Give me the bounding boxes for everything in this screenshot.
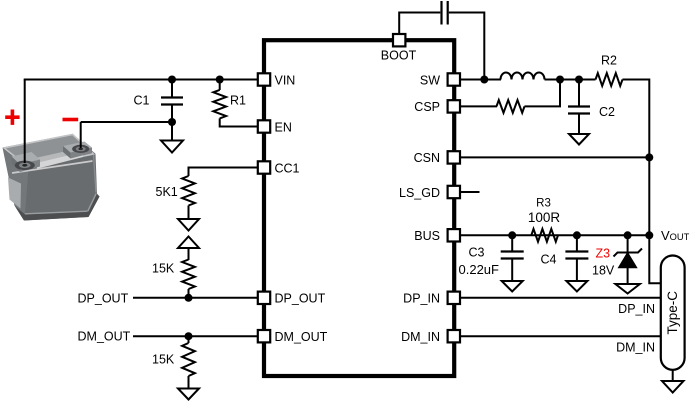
svg-text:R2: R2 — [601, 54, 617, 68]
wire VOUT to Type-C — [649, 235, 661, 283]
resistor R2 — [596, 73, 623, 86]
node CSN / right rail — [645, 153, 653, 161]
node C1 top (VIN rail) — [168, 76, 176, 84]
pin DM_IN — [448, 330, 460, 342]
wire DM_IN to Type-C — [460, 335, 661, 337]
pin BUS — [448, 229, 460, 241]
svg-text:SW: SW — [420, 73, 440, 87]
svg-text:CSN: CSN — [414, 151, 440, 165]
resistor R1 — [213, 90, 226, 119]
resistor 15K (DM_OUT) — [182, 343, 195, 376]
node Z3 / BUS — [624, 231, 632, 239]
capacitor C_BOOT — [442, 1, 448, 25]
svg-text:DP_IN: DP_IN — [618, 302, 655, 316]
wire CC1 to 5K1 — [189, 168, 259, 177]
svg-text:DM_IN: DM_IN — [616, 341, 655, 355]
resistor R_sense (CSP) — [497, 100, 525, 113]
svg-text:DP_OUT: DP_OUT — [275, 292, 326, 306]
svg-text:BOOT: BOOT — [381, 49, 417, 63]
ground under C1 — [161, 141, 183, 153]
ground under C2 — [569, 134, 589, 145]
svg-text:18V: 18V — [592, 264, 615, 278]
wire L1 to R2 — [545, 79, 596, 81]
svg-text:Type-C: Type-C — [665, 291, 680, 335]
node C3 / BUS — [508, 231, 516, 239]
svg-text:DP_IN: DP_IN — [403, 292, 440, 306]
capacitor C2 — [568, 80, 590, 134]
node L1 / CSP riser — [556, 76, 564, 84]
battery minus symbol — [63, 118, 79, 122]
capacitor C4 — [565, 235, 588, 281]
resistor R3 — [531, 229, 558, 242]
svg-text:0.22uF: 0.22uF — [459, 262, 500, 277]
ground under C4 — [566, 281, 587, 292]
wire battery - to C1 bottom — [81, 121, 172, 123]
svg-text:CSP: CSP — [414, 100, 440, 114]
node C1 bottom — [168, 118, 176, 126]
svg-text:DP_OUT: DP_OUT — [78, 291, 129, 305]
svg-text:100R: 100R — [528, 210, 561, 225]
wire DM_OUT to 15K — [188, 336, 190, 343]
ground under C3 — [502, 281, 523, 292]
pin LS_GD — [448, 186, 460, 198]
wire C_BOOT to SW node — [449, 13, 485, 80]
node 15K / DP_OUT — [185, 294, 193, 302]
ground under 5K1 — [178, 219, 199, 231]
pin CC1 — [258, 161, 270, 173]
ground (flipped) above 15K — [178, 237, 199, 249]
pin DP_OUT — [258, 292, 270, 304]
wire SW to L1 — [460, 79, 501, 81]
svg-text:R1: R1 — [230, 94, 246, 108]
svg-text:5K1: 5K1 — [156, 185, 178, 199]
svg-text:BUS: BUS — [414, 229, 440, 243]
ground under 15K (DM_OUT) — [178, 389, 199, 400]
svg-text:DM_OUT: DM_OUT — [78, 330, 131, 344]
capacitor C1 — [161, 80, 183, 141]
svg-text:LS_GD: LS_GD — [399, 186, 440, 200]
wire right rail CSN to VOUT — [648, 157, 650, 235]
svg-text:VIN: VIN — [275, 73, 296, 87]
node R1 top (VIN rail) — [216, 76, 224, 84]
wire BOOT up — [399, 13, 440, 34]
wire R2 to right rail — [623, 80, 650, 158]
wire sense resistor up to L1 node — [525, 80, 561, 107]
pin DP_IN — [448, 292, 460, 304]
wire LS_GD stub — [460, 191, 480, 193]
svg-text:DM_OUT: DM_OUT — [275, 330, 328, 344]
svg-text:C2: C2 — [599, 105, 615, 119]
wire battery + up to VIN rail — [24, 80, 26, 164]
wire R1 top — [219, 80, 221, 91]
pin CSP — [448, 100, 460, 112]
svg-text:CC1: CC1 — [275, 161, 300, 175]
svg-text:C1: C1 — [134, 94, 150, 108]
wire VIN rail horizontal — [24, 79, 258, 81]
wire ground to 15K — [188, 248, 190, 260]
battery (12V car battery, + and - terminals) — [3, 134, 100, 221]
node VOUT — [645, 231, 653, 239]
capacitor C3 — [501, 235, 524, 281]
wire 15K to ground — [188, 376, 190, 389]
wire 5K1 bottom — [188, 206, 190, 220]
ground under Type-C — [662, 381, 684, 393]
node C4 / BUS — [573, 231, 581, 239]
ground under Z3 — [615, 284, 640, 294]
op-amp / converter IC U1 (main block) — [264, 40, 454, 376]
svg-text:C3: C3 — [469, 246, 485, 260]
pin BOOT — [393, 34, 405, 46]
svg-text:15K: 15K — [152, 353, 175, 367]
wire CSN to right rail — [460, 156, 649, 158]
resistor 5K1 — [182, 176, 195, 206]
svg-text:DM_IN: DM_IN — [401, 330, 440, 344]
zener diode Z3 — [614, 235, 643, 284]
svg-text:EN: EN — [275, 120, 292, 134]
wire DP_IN to Type-C — [460, 297, 661, 299]
battery plus symbol — [5, 110, 19, 125]
wire 15K to DP_OUT line — [188, 289, 190, 298]
svg-text:15K: 15K — [152, 262, 175, 276]
pin SW — [448, 73, 460, 85]
resistor 15K (DP_OUT) — [182, 260, 195, 290]
wire DP_OUT — [133, 297, 258, 299]
pin VIN — [258, 73, 270, 85]
node SW / C_BOOT — [480, 76, 488, 84]
wire CSP to sense resistor — [460, 105, 497, 107]
wire R1 bottom to EN — [220, 118, 258, 126]
wire BUS rail — [460, 234, 649, 236]
svg-text:Z3: Z3 — [596, 247, 611, 261]
svg-text:R3: R3 — [536, 198, 551, 210]
node 15K / DM_OUT — [185, 332, 193, 340]
pin DM_OUT — [258, 330, 270, 342]
svg-text:C4: C4 — [541, 253, 557, 267]
pin EN — [258, 120, 270, 132]
wire Type-C to ground — [672, 370, 674, 381]
inductor L1 — [501, 73, 545, 80]
node C2 top — [575, 76, 583, 84]
wire battery - up — [80, 122, 82, 148]
pin CSN — [448, 151, 460, 163]
connector J1 Type-C receptacle — [661, 256, 685, 370]
wire DM_OUT — [133, 335, 258, 337]
